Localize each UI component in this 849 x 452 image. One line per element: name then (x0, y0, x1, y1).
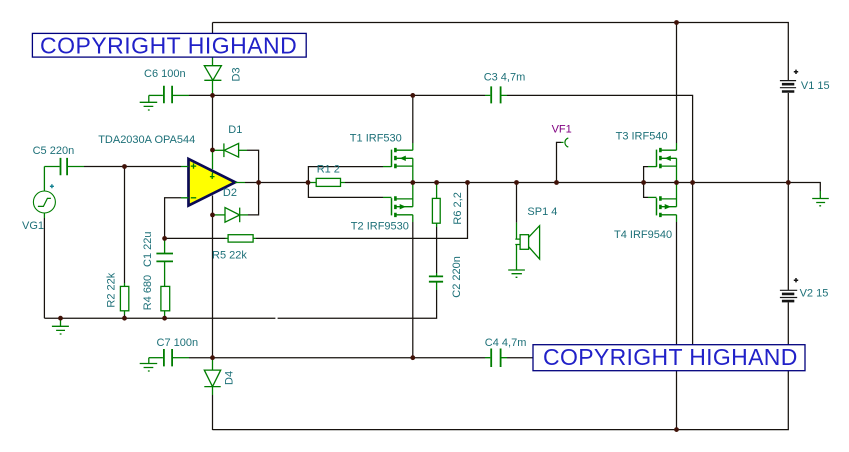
svg-text:D1: D1 (228, 124, 242, 136)
svg-text:COPYRIGHT HIGHAND: COPYRIGHT HIGHAND (40, 33, 297, 59)
svg-text:T3 IRF540: T3 IRF540 (616, 131, 668, 143)
svg-text:VF1: VF1 (552, 124, 572, 136)
svg-text:D2: D2 (223, 187, 237, 199)
svg-text:VG1: VG1 (22, 220, 44, 232)
svg-text:T2 IRF9530: T2 IRF9530 (351, 221, 409, 233)
svg-text:C3 4,7m: C3 4,7m (484, 72, 526, 84)
svg-text:R4 680: R4 680 (142, 275, 154, 310)
svg-text:COPYRIGHT HIGHAND: COPYRIGHT HIGHAND (543, 344, 798, 370)
svg-text:C6 100n: C6 100n (144, 68, 186, 80)
svg-text:R6 2,2: R6 2,2 (452, 192, 464, 224)
svg-text:SP1 4: SP1 4 (527, 206, 557, 218)
svg-text:C1 22u: C1 22u (142, 232, 154, 267)
svg-text:C4 4,7m: C4 4,7m (485, 337, 527, 349)
svg-text:V1 15: V1 15 (801, 80, 830, 92)
svg-text:D4: D4 (224, 371, 236, 385)
svg-text:R2 22k: R2 22k (105, 272, 117, 307)
svg-text:C2 220n: C2 220n (451, 256, 463, 298)
svg-text:C7 100n: C7 100n (157, 337, 199, 349)
svg-text:T1 IRF530: T1 IRF530 (350, 133, 402, 145)
svg-text:R1 2: R1 2 (317, 164, 340, 176)
svg-text:TDA2030A OPA544: TDA2030A OPA544 (98, 134, 195, 146)
svg-text:C5 220n: C5 220n (33, 145, 75, 157)
svg-text:D3: D3 (231, 67, 243, 81)
svg-text:R5 22k: R5 22k (212, 250, 247, 262)
svg-text:V2 15: V2 15 (800, 288, 829, 300)
svg-text:T4 IRF9540: T4 IRF9540 (614, 229, 672, 241)
